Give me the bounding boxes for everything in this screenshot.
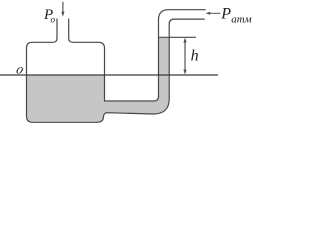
h dimension arrow — [184, 39, 186, 74]
svg-text:h: h — [191, 47, 199, 64]
svg-text:P: P — [220, 6, 231, 23]
liquid fill in tube — [104, 38, 169, 114]
P0 down arrow — [62, 2, 64, 15]
liquid fill in tank — [27, 76, 104, 122]
o reference line — [0, 74, 218, 76]
svg-text:атм: атм — [231, 14, 251, 26]
svg-text:o: o — [15, 62, 26, 77]
tank outline left part: neck left wall, top, left wall, bottom, junction to tube bottom, outer bend, tube right wall, mouth bottom line — [27, 19, 205, 123]
liquid level tick in tube — [159, 36, 197, 38]
Patm left arrow — [208, 12, 221, 14]
svg-text:o: o — [50, 16, 55, 26]
tank outline right part: neck right wall, top right, right wall, tube top line, inner bend, tube left wall, outer top bend, mouth top line — [69, 10, 206, 101]
